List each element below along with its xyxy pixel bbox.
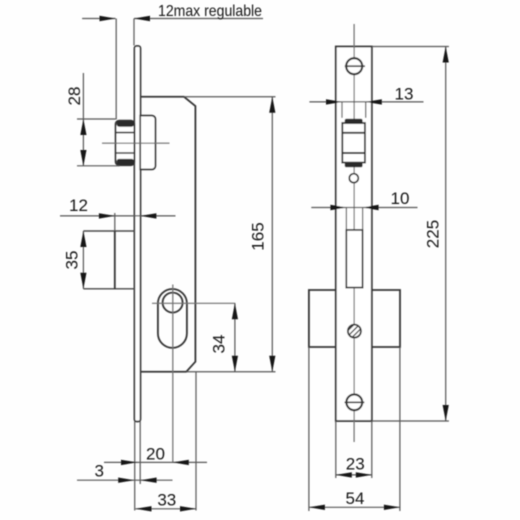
svg-text:3: 3 [94,462,103,481]
svg-text:33: 33 [157,491,176,510]
small fixing hole [349,174,358,183]
dimension 54 (case width) [309,347,400,511]
latch housing block (side view) [140,116,155,170]
dimension 225 (faceplate height) [372,47,449,422]
svg-text:28: 28 [65,87,84,106]
case top edge extension line [184,96,276,98]
svg-text:10: 10 [391,189,410,208]
svg-text:54: 54 [346,489,365,508]
dimension 12max regulable [82,3,263,120]
dimension 33 (faceplate to case back) [136,491,197,512]
roller axis centerline (side view) [102,142,170,144]
svg-text:12: 12 [69,196,88,215]
svg-text:20: 20 [146,444,165,463]
top screw hole [345,58,365,74]
bottom screw hole [345,394,365,410]
dimension 165 (case height) [249,97,276,372]
dimension 10 (slot width) [311,189,417,230]
lock case (side view) [140,97,195,372]
dimension 20 (faceplate to case centre) [104,444,207,465]
dimension 3 (faceplate thickness) [77,462,173,483]
faceplate (side view) [134,46,140,422]
svg-text:34: 34 [210,335,229,354]
dimension 23 (faceplate width) [336,421,372,478]
svg-text:225: 225 [424,220,443,248]
cylinder horizontal centerline [152,302,235,304]
cylinder hole oval (side view) [158,289,187,348]
dimension 34 (cylinder centre to case bottom) [210,303,238,371]
dimension 12 (deadbolt projection) [60,196,176,231]
cylinder vertical centerline [172,285,174,463]
lock case block (front view) [309,290,400,347]
roller latch (front view) [342,119,365,167]
svg-text:13: 13 [395,85,414,104]
faceplate (front view) [336,47,372,422]
case bottom edge extension line [186,371,275,373]
cylinder core circle (side view) [163,293,183,313]
roller latch (side view) [116,121,135,166]
auxiliary deadbolt block (side view) [83,231,134,289]
svg-text:23: 23 [346,455,365,474]
faceplate edge extension lines (bottom) [135,372,196,511]
svg-text:35: 35 [63,251,82,270]
svg-text:165: 165 [249,222,268,250]
lever slot [346,230,362,288]
vertical centerline (front view) [353,24,355,442]
dimension 13 (roller width) [309,85,423,118]
svg-text:12max regulable: 12max regulable [158,3,262,20]
dimension 28 (roller height) [65,73,120,166]
dimension 35 (deadbolt height) [63,231,87,289]
hatched adjuster screw [345,322,364,342]
